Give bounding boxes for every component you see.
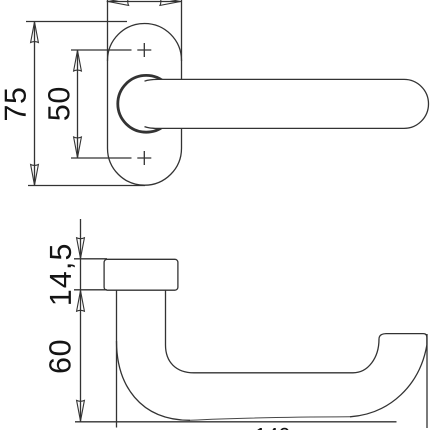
140 dimension line — [75, 421, 397, 423]
handle neck and big curve (side view) — [117, 290, 191, 421]
14,5 extension line bottom — [74, 289, 107, 291]
arrowhead: 14,5/60 shared, pointing up below rosette bottom — [77, 291, 85, 312]
arrowhead: top width dim, pointing right — [160, 0, 181, 5]
handle hook end, grip top and neck fillet (side view) — [166, 290, 427, 417]
handle underside (faint line, side view) — [190, 417, 350, 421]
dimension text 75 — [5, 88, 26, 120]
14,5 extension line top — [74, 258, 107, 260]
lever grip white fill (covers circle/plate behind) — [145, 79, 429, 128]
extension line right (above plate) — [181, 0, 183, 61]
140 right extension line — [426, 334, 428, 428]
arrowhead: 75 bottom, pointing down — [31, 165, 39, 186]
arrowhead: 14,5 top, pointing down (outside above) — [77, 238, 85, 259]
dimension text 50 — [48, 88, 70, 120]
dimension text 60 — [49, 341, 71, 373]
50 extension line top — [71, 49, 132, 51]
lever grip outline (top view) — [145, 79, 429, 128]
arrowhead: top width dim, pointing left — [108, 0, 129, 5]
140 left extension line (continues neck left edge) — [116, 341, 118, 428]
14,5 / 60 dimension line — [80, 219, 82, 422]
arrowhead: 60 bottom, pointing down — [77, 400, 85, 421]
lever neck circle (top view, thick) — [118, 75, 175, 132]
rosette plate (stadium outline, top view) — [108, 24, 182, 186]
75 extension line top — [26, 21, 127, 23]
extension line left (above plate) — [107, 0, 109, 61]
top width dimension line (cut off at top edge) — [107, 1, 182, 3]
arrowhead: 50 top, pointing up — [74, 50, 82, 71]
50 extension line bottom — [71, 157, 132, 159]
dimension text 14,5 — [50, 245, 75, 304]
dimension text 140 (mostly cut off at bottom) — [256, 428, 289, 430]
screw hole cross bottom — [137, 151, 151, 165]
75 dimension line — [34, 22, 36, 186]
50 dimension line — [77, 50, 79, 158]
screw hole cross top — [137, 43, 151, 57]
rosette (side view rectangle) — [104, 259, 178, 290]
arrowhead: 75 top, pointing up — [31, 22, 39, 43]
75 extension line bottom — [28, 185, 145, 187]
arrowhead: 50 bottom, pointing down — [74, 137, 82, 158]
